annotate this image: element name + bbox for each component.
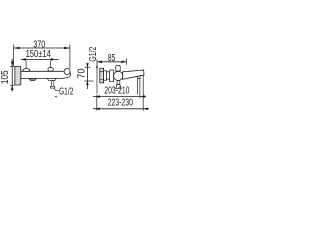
- aerator bump under bar: [29, 79, 36, 81]
- left end cap escutcheon (front view): [15, 66, 21, 85]
- dimension 150±14 left arrow: [21, 58, 26, 61]
- plate detail line upper: [100, 70, 104, 72]
- leader arrowhead under G1/2: [55, 96, 57, 98]
- dimension 105 line: [11, 59, 13, 92]
- faucet body bar (front view): [21, 71, 71, 78]
- spout (side view): [123, 70, 144, 79]
- left inlet fitting oval: [23, 69, 30, 72]
- extension line left of 370: [13, 44, 15, 66]
- dimension 203-210 right arrow: [140, 95, 145, 98]
- outlet stem flare: [50, 86, 54, 88]
- tick bottom of 105: [10, 84, 15, 86]
- handle knob circle (front view right end): [64, 69, 70, 75]
- dimension 370 left arrow: [14, 47, 20, 50]
- dimension 203-210 text: [104, 85, 129, 96]
- dimension 85 left arrow: [97, 61, 102, 64]
- plate detail line lower: [100, 79, 104, 81]
- dimension 223-230 text: [108, 98, 133, 109]
- right inlet fitting oval: [48, 67, 53, 71]
- dimension 70 line: [86, 63, 88, 89]
- dimension 223-230 right arrow: [144, 108, 149, 111]
- svg-text:70: 70: [76, 68, 87, 79]
- svg-text:150±14: 150±14: [26, 49, 52, 60]
- union nut step 2: [107, 72, 110, 79]
- svg-text:105: 105: [0, 70, 11, 84]
- extension line left of 150±14: [25, 61, 27, 69]
- svg-text:G1/2: G1/2: [88, 46, 99, 61]
- extension tick right of 85: [125, 59, 127, 65]
- svg-text:223-230: 223-230: [108, 98, 133, 109]
- dimension 70 text (rotated): [76, 68, 87, 79]
- dimension 85 right arrow: [121, 61, 126, 64]
- svg-text:85: 85: [108, 53, 116, 64]
- label G1/2 horizontal: [59, 87, 74, 98]
- dimension 370 line: [14, 47, 70, 49]
- dimension 203-210 line: [93, 96, 146, 98]
- leader arrowhead of G1/2 on wall line: [96, 66, 98, 69]
- dimension 105 text (rotated): [0, 70, 11, 84]
- lever flare bottom: [116, 85, 122, 89]
- union nut step 1: [104, 71, 107, 80]
- dimension 150±14 text: [26, 49, 52, 60]
- dimension 203-210 left arrow: [95, 95, 100, 98]
- tick bottom of 70: [85, 80, 94, 82]
- extension line right of 370: [69, 44, 71, 68]
- dimension 70 top arrow: [86, 63, 89, 67]
- dimension 85 line: [97, 61, 126, 63]
- wall line (side view): [96, 60, 98, 94]
- extension line from outlet b: [139, 78, 141, 98]
- dimension 150±14 right arrow: [51, 58, 56, 61]
- extension line right of 150±14: [50, 61, 52, 72]
- outlet stem under bar: [51, 81, 53, 87]
- dimension 370 text: [33, 40, 45, 51]
- valve block (side view): [110, 70, 114, 82]
- dimension 150±14 line: [21, 58, 59, 60]
- tick top of 70: [85, 66, 91, 68]
- diverter knob on top: [116, 65, 120, 71]
- dimension 223-230 line: [93, 108, 149, 110]
- extension line from spout tip: [142, 75, 144, 111]
- extension line left of projection dims: [96, 95, 98, 111]
- extension line from outlet a: [137, 78, 139, 94]
- lever stem below (side view): [117, 81, 120, 85]
- svg-text:203-210: 203-210: [104, 85, 129, 96]
- svg-text:G1/2: G1/2: [59, 87, 74, 98]
- wall plate escutcheon (side view): [100, 68, 104, 83]
- valve circle (side view): [114, 71, 123, 80]
- dimension 105 bottom arrow: [11, 85, 14, 90]
- label G1/2 vertical (rotated): [88, 46, 99, 61]
- dimension 70 bottom arrow: [86, 81, 89, 85]
- dimension 105 top arrow: [11, 62, 14, 67]
- spout outlet under tip: [138, 76, 141, 79]
- dimension 85 text: [108, 53, 116, 64]
- dimension 370 right arrow: [64, 47, 70, 50]
- leader line to G1/2: [54, 88, 59, 91]
- tick top of 105: [10, 65, 15, 67]
- outlet flange under bar: [48, 79, 57, 81]
- dimension 223-230 left arrow: [95, 108, 100, 111]
